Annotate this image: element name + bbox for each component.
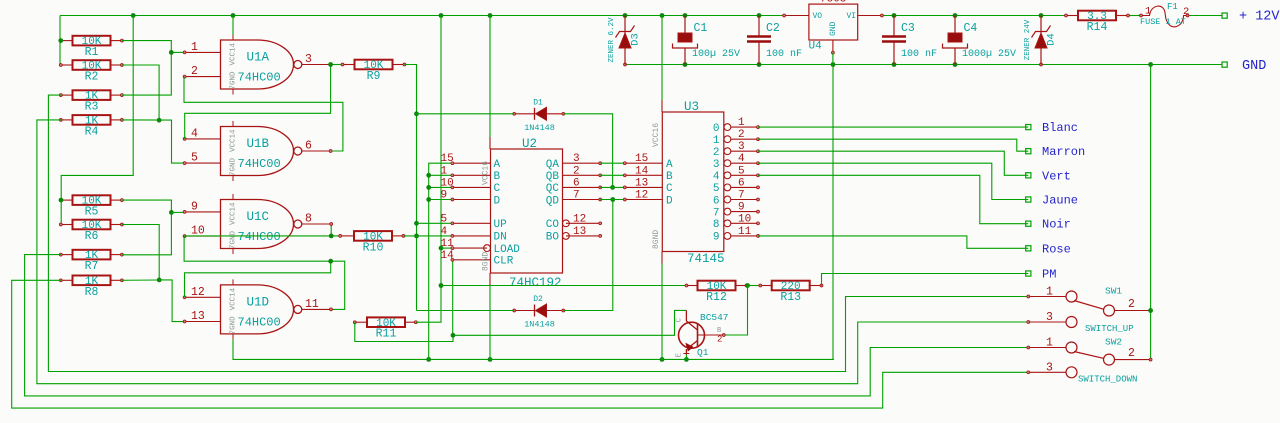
junctions on GND bus [426,357,688,362]
svg-text:QC: QC [546,183,560,195]
wire to R13 [748,285,761,287]
svg-text:VCC14: VCC14 [230,287,238,310]
svg-text:LOAD: LOAD [494,244,521,256]
svg-text:9: 9 [738,202,745,214]
svg-text:7: 7 [573,190,580,202]
svg-text:B: B [666,171,673,183]
svg-text:R14: R14 [1087,21,1108,34]
svg-text:E: E [676,353,684,357]
svg-text:2: 2 [1128,347,1135,360]
junction dots on top rail [131,13,1044,18]
svg-text:D: D [494,195,501,207]
svg-text:D1: D1 [533,98,543,107]
svg-text:7: 7 [713,207,720,219]
svg-text:100 nF: 100 nF [901,49,937,60]
svg-text:5: 5 [738,165,745,177]
svg-text:D2: D2 [533,295,543,304]
wire output Blanc [758,126,1028,128]
svg-text:R6: R6 [85,230,99,243]
svg-text:FUSE 1 AT: FUSE 1 AT [1140,17,1186,27]
svg-text:7: 7 [738,190,745,202]
wire R1/R3 to U1A pin1 [122,41,184,96]
svg-text:+ 12V: + 12V [1239,10,1280,25]
wire collector line [453,310,686,335]
svg-text:C4: C4 [964,22,978,35]
svg-text:2: 2 [713,147,720,159]
junction R1 left [58,38,63,43]
svg-text:12: 12 [573,213,586,225]
transistor Q1 BC547 [676,310,729,358]
wire output Jaune [758,163,1028,199]
svg-text:13: 13 [635,177,648,189]
resistor R5 [59,195,123,218]
wire UP pin [417,222,453,224]
svg-text:6: 6 [738,177,745,189]
svg-text:7805: 7805 [820,0,846,6]
svg-text:6: 6 [573,177,580,189]
junction D2/QD [610,197,615,202]
svg-text:15: 15 [441,153,454,165]
resistor R7 [59,250,123,273]
wire R13 to PM [822,274,1029,286]
svg-text:7GND: 7GND [230,157,238,176]
resistor R3 [59,90,123,113]
svg-text:D: D [666,195,673,207]
resistor R13 [759,281,823,304]
wire D2 left [417,310,515,312]
svg-text:SW1: SW1 [1105,286,1122,297]
svg-text:VCC14: VCC14 [230,202,238,225]
diode D2 1N4148 [513,295,565,330]
svg-text:1: 1 [441,165,448,177]
wire GND rail [625,64,1222,66]
diode D4 zener 24V [1024,16,1058,65]
wire U1C pin10/R10/U1D-11 net [184,236,345,311]
svg-text:R8: R8 [85,286,99,299]
wire R11 left to CLR/collector node [355,322,453,341]
IC U4 7805 regulator [783,0,884,54]
svg-text:3: 3 [1046,311,1053,324]
svg-text:12: 12 [635,190,648,202]
svg-text:Blanc: Blanc [1042,121,1078,135]
node +12V flag [1222,10,1280,25]
NAND gate U1D [183,279,330,339]
svg-text:11: 11 [738,226,752,238]
svg-text:2: 2 [191,65,198,78]
wire U2 GND riser [489,285,491,359]
wire output Vert [758,151,1028,175]
svg-text:100 nF: 100 nF [766,49,802,60]
resistor R10 [339,231,405,254]
wire output Noir [758,175,1028,223]
resistor R6 [59,220,123,243]
wire R10 to DN pin [403,235,452,237]
wire U1A VCC to rail [232,16,234,35]
svg-text:R10: R10 [363,241,384,254]
svg-text:ZENER 24V: ZENER 24V [1024,19,1032,60]
wire D1 right to QC [563,114,612,188]
svg-text:74HC192: 74HC192 [509,276,562,290]
svg-text:UP: UP [494,219,508,231]
resistor R12 [685,281,748,304]
svg-text:74HC00: 74HC00 [238,230,281,244]
svg-text:6: 6 [305,140,312,153]
svg-text:2: 2 [717,335,722,345]
IC U3 74145 [623,100,759,266]
wire U4 GND to rail [832,53,834,65]
wire U1C out to pin10 net [330,223,333,236]
wire R4 to bus SW1-3 [37,120,1028,384]
wire A/B/C/D preset bus [429,163,453,359]
wire R2 down [122,65,159,120]
svg-text:C1: C1 [694,22,708,35]
svg-text:QD: QD [546,195,560,207]
svg-text:R12: R12 [706,291,727,304]
svg-text:SWITCH_DOWN: SWITCH_DOWN [1078,374,1137,384]
resistor R9 [341,60,406,83]
svg-text:100µ 25V: 100µ 25V [692,49,740,60]
junction UP column [414,111,419,238]
capacitor C4 [943,16,1017,65]
wire D2 right to QD [563,200,613,311]
svg-text:R4: R4 [85,125,99,138]
junction R6/R8 node [157,278,162,283]
capacitor C1 [673,16,741,65]
junction SW1 common [1148,308,1153,361]
wire U3 VCC riser [661,16,663,101]
wire U1A pin2 to U1B out [184,77,343,153]
svg-text:74HC00: 74HC00 [238,71,281,85]
svg-text:C: C [666,183,673,195]
wire GND to switch commons [1150,65,1152,360]
resistor R11 [353,317,417,340]
svg-text:R9: R9 [367,70,381,83]
svg-text:A: A [494,159,501,171]
svg-text:11: 11 [305,298,319,311]
svg-text:U1C: U1C [247,210,270,224]
svg-text:VCC14: VCC14 [230,42,238,65]
wire R4 to U1B pin5 [122,120,184,163]
wire +5V to R1/R2 [59,16,61,65]
svg-text:QB: QB [546,171,560,183]
wire output Rose [758,236,1028,248]
svg-text:8: 8 [305,213,312,226]
svg-text:U4: U4 [809,41,823,53]
svg-text:VCC16: VCC16 [652,123,661,147]
svg-text:1N4148: 1N4148 [524,320,555,330]
svg-text:R2: R2 [85,71,99,84]
NAND gate U1A [183,35,330,95]
svg-text:3: 3 [573,153,580,165]
wire LOAD pin [441,247,452,249]
svg-text:9: 9 [441,190,448,202]
svg-text:U2: U2 [522,137,537,151]
wire +5V to R5/R6 [61,16,133,225]
svg-text:Jaune: Jaune [1042,194,1078,208]
wire U4 GND down riser [832,65,834,360]
wire R5 to U1C pin9 riser [122,200,171,255]
svg-text:0: 0 [713,123,720,135]
svg-text:VI: VI [847,12,857,21]
svg-text:R5: R5 [85,206,99,219]
NAND gate U1C [183,194,330,254]
svg-text:2: 2 [738,129,745,141]
svg-text:1: 1 [1046,337,1053,350]
wire +5V/+12V top rail [60,15,1222,17]
svg-text:7GND: 7GND [230,71,238,90]
svg-text:C2: C2 [766,22,780,35]
capacitor C2 [747,16,802,65]
svg-text:R3: R3 [85,101,99,114]
svg-text:U1B: U1B [247,137,270,151]
svg-text:1: 1 [1046,286,1053,299]
svg-text:C: C [676,318,684,322]
svg-text:13: 13 [573,226,586,238]
IC U2 74HC192 [441,137,602,290]
svg-text:8GND: 8GND [652,230,661,249]
svg-text:R1: R1 [85,46,99,59]
wire emitter to GND bus [685,355,687,360]
svg-text:3: 3 [713,159,720,171]
wire R8 to bus SW2-3 [12,280,1029,408]
junction pin9 node [169,210,184,215]
resistor R1 [59,36,123,59]
svg-text:74145: 74145 [687,252,725,266]
wire D1 left [417,113,515,115]
svg-text:B: B [494,171,501,183]
svg-text:12: 12 [191,286,205,299]
svg-text:74HC00: 74HC00 [238,157,281,171]
svg-text:1000µ 25V: 1000µ 25V [962,49,1016,60]
svg-text:VO: VO [813,12,823,21]
resistor R8 [59,276,123,299]
wire R7 to bus SW2-1 [25,255,1029,396]
svg-text:C: C [494,183,501,195]
svg-text:1: 1 [191,41,198,54]
wire R12 line [441,285,687,287]
svg-text:5: 5 [713,183,720,195]
svg-text:SWITCH_UP: SWITCH_UP [1085,324,1134,334]
fuse F1 [1140,2,1190,27]
svg-text:PM: PM [1042,268,1056,282]
svg-text:VCC16: VCC16 [482,161,491,185]
NAND gate U1B [183,121,330,181]
svg-text:1: 1 [713,135,720,147]
diode D1 1N4148 [513,98,565,133]
svg-text:R13: R13 [780,291,801,304]
svg-text:C3: C3 [901,22,915,35]
svg-text:Vert: Vert [1042,169,1071,183]
node GND flag [1222,59,1266,74]
resistor R4 [59,115,123,138]
junction pin10 net [328,234,333,264]
switch SW1 SWITCH_UP [1027,286,1151,335]
wire R6 down [122,225,159,280]
svg-text:D3: D3 [630,33,642,46]
junction U1A out [328,62,333,67]
wire R3 to bus SW1-1 [48,95,1028,371]
svg-text:BC547: BC547 [700,312,729,323]
svg-text:1: 1 [1145,6,1151,18]
svg-text:SW2: SW2 [1105,337,1122,348]
svg-text:8GND: 8GND [482,252,491,271]
node output labels Blanc/Marron/Vert/Jaune/Noir/Rose/PM [1026,121,1086,281]
svg-text:11: 11 [441,238,455,250]
svg-text:VCC14: VCC14 [230,129,238,152]
wire R9 to UP column [404,65,416,311]
svg-text:3: 3 [1046,361,1053,374]
wire output Marron [758,139,1028,151]
svg-text:2: 2 [573,165,580,177]
junction R5 left [59,198,64,203]
junction pin1 node [169,50,174,55]
svg-text:ZENER 6.2V: ZENER 6.2V [608,17,616,63]
svg-text:1N4148: 1N4148 [524,123,555,133]
svg-text:4: 4 [738,153,745,165]
resistor R2 [59,60,123,83]
wire U1A out to R9/pin4 [185,65,343,139]
junction dots on GND rail [624,62,1153,67]
junction +5 column R12 line [439,283,444,288]
svg-text:6: 6 [713,195,720,207]
wire CLR riser [452,260,454,336]
svg-text:Q1: Q1 [697,347,709,358]
svg-text:4: 4 [713,171,720,183]
svg-text:1: 1 [738,117,745,129]
svg-text:R11: R11 [376,328,397,341]
svg-text:A: A [666,159,673,171]
svg-text:U3: U3 [684,100,699,114]
wire node to U1D pin13 [159,280,184,322]
svg-text:U1D: U1D [247,295,270,309]
junction R12/R13/base [745,283,750,288]
wire R11 right to +5 column [416,16,441,323]
wire base [724,286,748,336]
svg-text:D4: D4 [1046,33,1058,46]
svg-text:R7: R7 [85,260,99,273]
svg-text:7GND: 7GND [230,316,238,335]
svg-text:15: 15 [635,153,648,165]
svg-text:3: 3 [305,53,312,66]
junction +5 column LOAD [439,246,444,251]
svg-text:5: 5 [441,213,448,225]
svg-text:Noir: Noir [1042,218,1071,232]
svg-text:74HC00: 74HC00 [238,315,281,329]
svg-text:Marron: Marron [1042,145,1085,159]
svg-text:4: 4 [441,226,448,238]
svg-text:QA: QA [546,159,560,171]
svg-text:8: 8 [713,219,720,231]
wire R8 to node [122,279,159,281]
diode D3 zener 6.2V [608,16,642,65]
junction CLR/collector node [451,333,456,338]
svg-text:3: 3 [738,141,745,153]
svg-text:Rose: Rose [1042,242,1071,256]
svg-text:F1: F1 [1167,2,1178,12]
svg-text:14: 14 [441,250,455,262]
svg-text:9: 9 [191,201,198,214]
svg-text:9: 9 [713,232,720,244]
svg-text:CLR: CLR [494,256,514,268]
svg-text:5: 5 [191,152,198,165]
svg-text:10: 10 [738,213,751,225]
svg-text:DN: DN [494,232,507,244]
svg-text:GND: GND [829,21,838,36]
svg-text:4: 4 [191,128,198,141]
resistor R14 [1065,11,1130,34]
junction preset bus [426,173,431,202]
svg-text:BO: BO [546,232,560,244]
capacitor C3 [882,16,937,65]
svg-text:CO: CO [546,219,560,231]
svg-text:2: 2 [1128,298,1135,311]
switch SW2 SWITCH_DOWN [1027,337,1151,385]
svg-text:GND: GND [1242,59,1266,74]
svg-text:10: 10 [441,177,454,189]
svg-text:13: 13 [191,310,205,323]
svg-text:7GND: 7GND [230,230,238,249]
junction D1/QC [610,185,615,190]
svg-text:U1A: U1A [247,51,270,65]
junction R2/R4 node [157,118,162,123]
wire U1D GND to bus [233,339,834,359]
svg-text:14: 14 [635,165,649,177]
wire QA-QD to U3 A-D [600,163,625,199]
wire U2 VCC riser [489,16,491,138]
wire U3 GND riser [661,264,663,360]
